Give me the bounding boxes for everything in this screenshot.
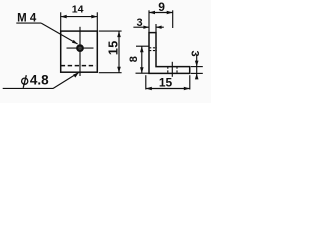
M4 leader arrowhead: [72, 40, 78, 44]
svg-text:3: 3: [137, 17, 143, 29]
dim 15 bottom extension line left: [145, 75, 147, 89]
dim 3 top extension line right: [155, 24, 157, 33]
hidden line: M4 hole lower (side view): [149, 50, 157, 52]
dim 15 bottom dimension line: [146, 88, 190, 90]
phi4.8 leader line: [53, 72, 79, 88]
dim 3 right arrowhead bottom: [195, 73, 199, 79]
dim 3 right dimension line: [196, 56, 198, 77]
M4 leader line: [41, 23, 77, 44]
dim 15 front arrowhead bottom: [117, 67, 121, 73]
hole centerline vertical: [79, 27, 81, 76]
dim 15 front extension line bottom: [99, 72, 122, 74]
dim 14 dimension line: [61, 16, 98, 18]
dim 3 top arrowhead left: [143, 26, 149, 29]
dim 3 right arrowhead top: [195, 61, 199, 67]
svg-text:4.8: 4.8: [30, 72, 49, 87]
dim 9 extension line left: [148, 10, 150, 32]
dim 15 bottom extension line right: [189, 75, 191, 89]
dim 8 extension line bottom: [136, 72, 150, 74]
dim 15 front extension line top: [99, 30, 122, 32]
phi4.8 label underline: [3, 87, 54, 89]
dim 9 arrowhead right: [167, 11, 173, 15]
hidden line: phi4.8 hole right (side view): [176, 67, 178, 74]
svg-text:9: 9: [158, 0, 165, 14]
svg-text:3: 3: [188, 51, 200, 57]
dim 8 extension line top: [136, 45, 149, 47]
hidden line: M4 hole upper (side view): [149, 47, 157, 49]
dim 14 extension line left: [60, 12, 62, 31]
hidden line: flange inner edge (front view): [61, 65, 96, 67]
dim 3 top arrowhead right: [156, 26, 162, 29]
phi symbol: [22, 75, 28, 88]
svg-text:15: 15: [159, 76, 173, 90]
dim 8 arrowhead top: [140, 46, 144, 52]
dim 9 extension line right: [172, 10, 174, 28]
dim 3 top dimension line right tail: [156, 26, 164, 28]
dim 15 bottom arrowhead right: [184, 87, 190, 91]
dim 9 dimension line: [149, 12, 173, 14]
front view plate outline: [61, 31, 98, 72]
svg-text:14: 14: [72, 4, 84, 16]
phi4.8 leader arrowhead: [73, 72, 79, 77]
svg-text:15: 15: [107, 40, 121, 55]
dim 15 front dimension line: [118, 31, 120, 73]
side view L-bracket outline: [149, 33, 190, 74]
dim 14 arrowhead right: [91, 15, 97, 19]
dim 8 arrowhead bottom: [140, 67, 144, 73]
dim 14 extension line right: [96, 12, 98, 31]
dim 8 dimension line: [141, 46, 143, 73]
dim 15 bottom arrowhead left: [146, 87, 152, 91]
dim 9 arrowhead left: [149, 11, 155, 15]
dim 15 front arrowhead top: [117, 31, 121, 37]
phi4.8 hole centerline (side view): [171, 62, 173, 77]
hole centerline horizontal: [67, 47, 94, 49]
M4 tapped hole (front view): [77, 45, 82, 50]
dim 3 right extension line top: [191, 66, 203, 68]
dim 3 right extension line bottom: [191, 72, 203, 74]
M4 label underline: [16, 22, 41, 24]
svg-text:8: 8: [128, 56, 140, 62]
svg-text:M 4: M 4: [17, 13, 37, 25]
dim 14 arrowhead left: [61, 15, 67, 19]
hidden line: phi4.8 hole left (side view): [167, 67, 169, 74]
dim 3 top dimension line left tail: [133, 26, 149, 28]
